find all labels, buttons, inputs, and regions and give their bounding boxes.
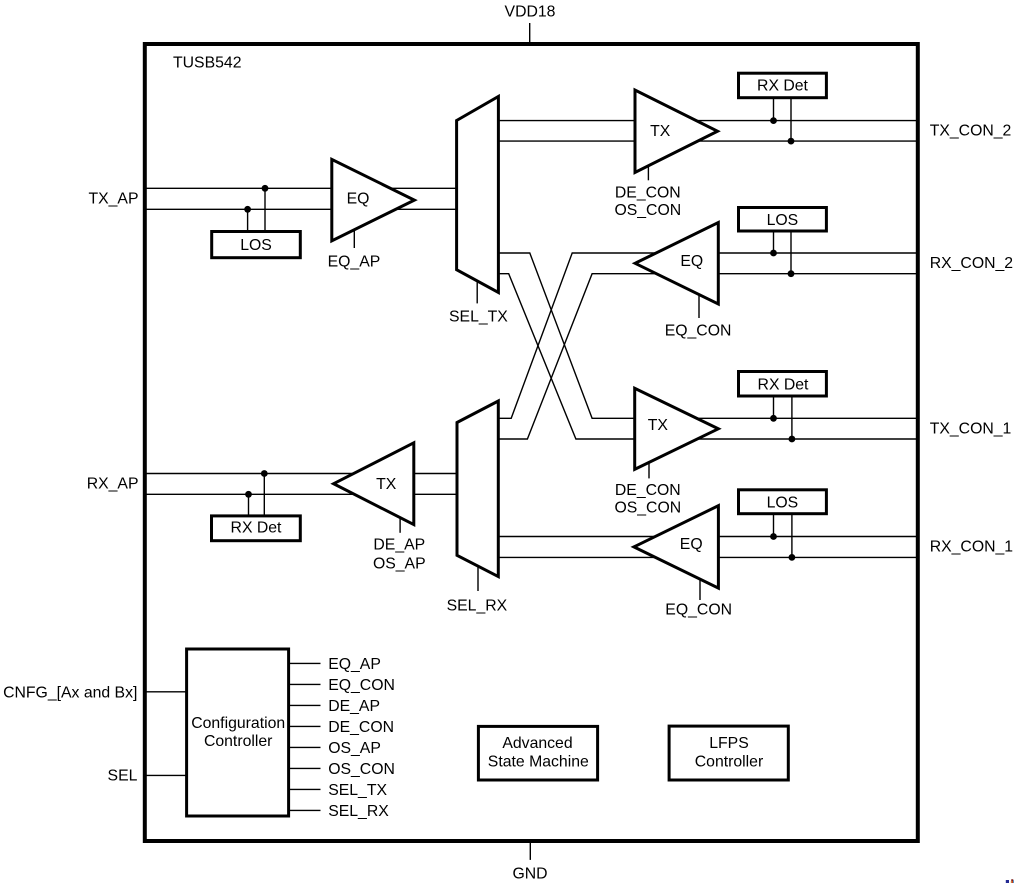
svg-text:Controller: Controller — [695, 754, 763, 771]
node RX_CON_1 junction dots — [770, 533, 777, 540]
wire TX_CON_2 differential pair — [497, 120, 917, 122]
svg-text:EQ: EQ — [680, 253, 703, 270]
amplifier TX (AP) — [334, 443, 414, 525]
svg-text:RX_AP: RX_AP — [87, 476, 139, 493]
wire GND stub — [529, 841, 531, 860]
svg-text:SEL_TX: SEL_TX — [328, 782, 387, 799]
svg-text:RX Det: RX Det — [758, 377, 810, 394]
svg-text:TX: TX — [650, 123, 671, 140]
wire RX_CON_1 differential pair — [497, 536, 917, 538]
svg-text:Configuration: Configuration — [191, 715, 285, 732]
svg-text:OS_AP: OS_AP — [373, 556, 426, 573]
amplifier TX (CON_2) — [635, 90, 718, 172]
svg-text:TX_CON_2: TX_CON_2 — [930, 122, 1012, 139]
svg-text:TX: TX — [376, 476, 397, 493]
svg-text:TX_CON_1: TX_CON_1 — [930, 420, 1012, 437]
wire config output stub SEL_TX — [290, 788, 321, 790]
svg-text:LOS: LOS — [240, 237, 272, 254]
block RX Det (CON_2) — [739, 73, 827, 98]
wire SEL_RX tick — [477, 567, 479, 591]
svg-text:DE_AP: DE_AP — [328, 698, 380, 715]
wire stubs to RX Det (CON_1) — [773, 397, 775, 419]
svg-text:OS_CON: OS_CON — [614, 202, 681, 219]
svg-text:RX_CON_2: RX_CON_2 — [930, 255, 1013, 272]
svg-text:EQ_AP: EQ_AP — [328, 656, 381, 673]
svg-text:EQ: EQ — [347, 190, 370, 207]
wire CNFG input — [145, 691, 188, 693]
svg-text:EQ_CON: EQ_CON — [665, 323, 732, 340]
wire stubs to RX Det (CON_2) — [773, 98, 775, 121]
svg-text:EQ_AP: EQ_AP — [328, 254, 381, 271]
node TX_CON_1 junction dots — [770, 415, 777, 422]
wire DE_AP tick — [399, 519, 401, 533]
block RX Det (CON_1) — [739, 372, 827, 397]
wire stubs to LOS (CON_2) — [773, 232, 775, 253]
svg-text:SEL: SEL — [108, 768, 138, 785]
block Configuration Controller — [187, 649, 289, 816]
svg-text:RX Det: RX Det — [231, 519, 283, 536]
svg-text:LOS: LOS — [767, 495, 799, 512]
svg-text:TUSB542: TUSB542 — [173, 54, 242, 71]
mux SEL_RX — [457, 401, 498, 577]
svg-text:EQ_CON: EQ_CON — [328, 677, 395, 694]
wire crossover pair B (EQ CON_2 to SEL_RX) — [490, 253, 917, 418]
svg-text:OS_CON: OS_CON — [614, 499, 681, 516]
wire TX_AP differential pair — [145, 187, 462, 189]
svg-text:SEL_RX: SEL_RX — [447, 598, 508, 615]
wire config output stub DE_AP — [290, 704, 321, 706]
wire config output stub SEL_RX — [290, 809, 321, 811]
svg-text:State Machine: State Machine — [488, 754, 589, 771]
svg-text:TX_AP: TX_AP — [88, 191, 138, 208]
wire DE_CON tick (CON_1) — [648, 461, 650, 478]
wire stubs to LOS (CON_1) — [773, 515, 775, 537]
svg-text:EQ: EQ — [680, 536, 703, 553]
node TX_AP junction dots — [262, 185, 269, 192]
svg-text:Controller: Controller — [204, 733, 272, 750]
wire EQ_CON tick (CON_2) — [698, 294, 700, 318]
wire config output stub EQ_AP — [290, 662, 321, 664]
wire stubs to LOS (AP) — [264, 188, 266, 231]
wire RX_AP differential pair — [145, 473, 462, 475]
block Advanced State Machine — [478, 726, 597, 780]
wire SEL_TX tick — [476, 281, 478, 303]
decorative corner fragment — [1006, 879, 1014, 883]
svg-text:DE_AP: DE_AP — [373, 537, 425, 554]
svg-text:VDD18: VDD18 — [505, 4, 556, 21]
amplifier EQ (AP) — [332, 159, 415, 240]
wire config output stub DE_CON — [290, 725, 321, 727]
mux SEL_TX — [457, 97, 499, 293]
amplifier TX (CON_1) — [635, 388, 719, 469]
node RX_CON_2 junction dots — [770, 250, 777, 257]
wire config output stub OS_AP — [290, 746, 321, 748]
block LFPS Controller — [669, 726, 788, 780]
svg-text:OS_CON: OS_CON — [328, 761, 395, 778]
svg-text:TX: TX — [648, 417, 669, 434]
wire crossover pair A (SEL_TX to TX_CON_1) — [497, 253, 917, 418]
wire EQ_CON tick (CON_1) — [699, 580, 701, 600]
svg-text:DE_CON: DE_CON — [328, 719, 394, 736]
svg-text:OS_AP: OS_AP — [328, 740, 381, 757]
wire config output stub EQ_CON — [290, 683, 321, 685]
wire SEL input — [145, 774, 188, 776]
svg-text:LFPS: LFPS — [709, 735, 749, 752]
amplifier EQ (CON_1) — [634, 506, 719, 588]
node TX_CON_2 junction dots — [770, 117, 777, 124]
svg-text:Advanced: Advanced — [502, 735, 572, 752]
node RX_AP junction dots — [261, 470, 268, 477]
amplifier EQ (CON_2) — [635, 223, 718, 305]
svg-text:DE_CON: DE_CON — [615, 185, 681, 202]
wire stubs to RX Det (AP) — [263, 474, 265, 516]
svg-text:GND: GND — [512, 865, 547, 882]
wire VDD18 stub — [529, 23, 531, 44]
svg-text:SEL_TX: SEL_TX — [449, 308, 508, 325]
svg-text:SEL_RX: SEL_RX — [328, 803, 389, 820]
svg-text:CNFG_[Ax and Bx]: CNFG_[Ax and Bx] — [3, 685, 137, 702]
block LOS (AP) — [212, 232, 301, 258]
svg-text:RX_CON_1: RX_CON_1 — [930, 539, 1014, 556]
wire DE_CON tick (CON_2) — [647, 165, 649, 181]
svg-text:DE_CON: DE_CON — [615, 482, 681, 499]
wire config output stub OS_CON — [290, 767, 321, 769]
block RX Det (AP) — [212, 516, 301, 541]
wire EQ_AP tick — [353, 231, 355, 249]
block TUSB542 main boundary — [145, 44, 918, 841]
svg-text:LOS: LOS — [767, 212, 799, 229]
svg-text:RX Det: RX Det — [757, 77, 809, 94]
block LOS (CON_2) — [739, 208, 827, 232]
block LOS (CON_1) — [739, 490, 827, 514]
svg-text:EQ_CON: EQ_CON — [665, 601, 732, 618]
